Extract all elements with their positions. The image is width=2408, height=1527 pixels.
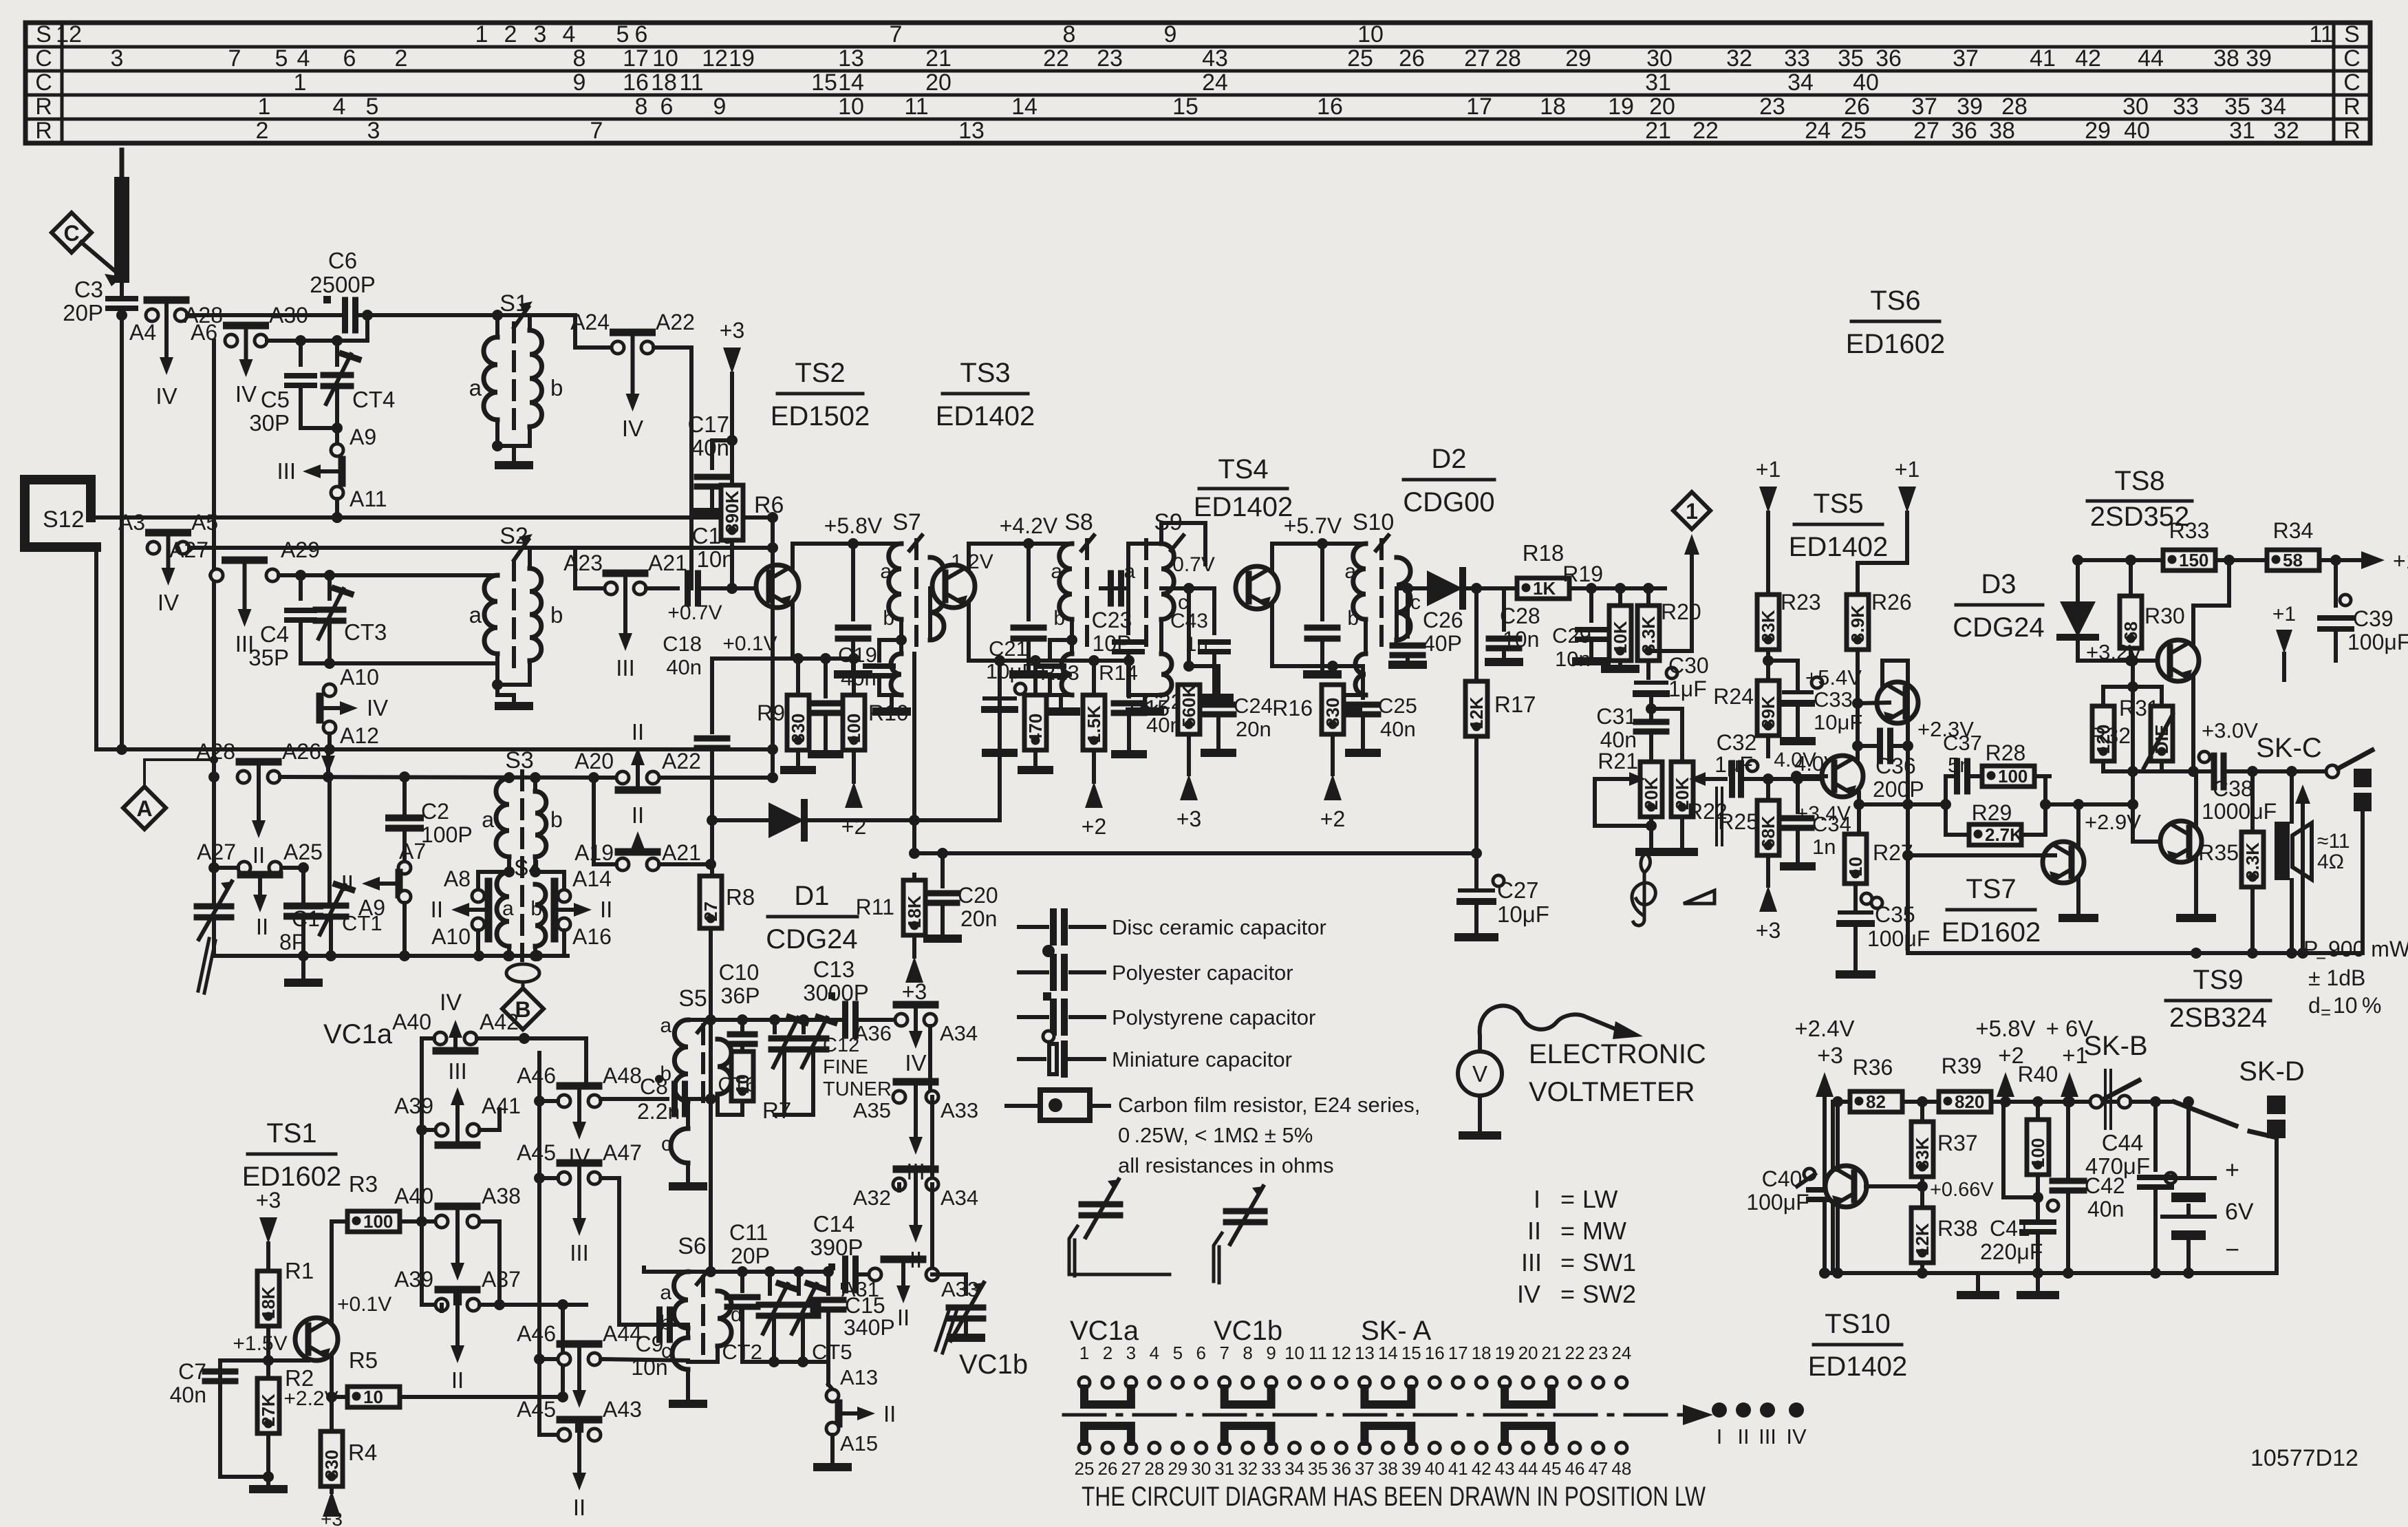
trimmer CT3 — [316, 575, 387, 645]
svg-text:c: c — [661, 1133, 671, 1155]
svg-text:ED1502: ED1502 — [771, 401, 870, 431]
svg-text:+3: +3 — [902, 979, 927, 1004]
svg-text:18: 18 — [1540, 94, 1566, 120]
resistor R5 10 — [283, 1347, 563, 1410]
svg-text:A46: A46 — [517, 1063, 556, 1088]
svg-text:15: 15 — [1172, 94, 1198, 120]
transformer S8 — [1036, 509, 1094, 712]
svg-text:10K: 10K — [1610, 621, 1631, 654]
wire TS7 base — [1908, 853, 2043, 857]
transformer S6 — [619, 1233, 742, 1404]
svg-text:10: 10 — [1284, 1343, 1304, 1363]
svg-text:35: 35 — [2224, 94, 2250, 120]
svg-text:TUNER: TUNER — [823, 1078, 892, 1100]
label TS3/ED1402 — [936, 358, 1035, 431]
transistor TS5 — [1774, 749, 1863, 797]
svg-text:b: b — [1347, 607, 1359, 630]
connector diamond B — [502, 988, 544, 1029]
svg-text:8: 8 — [635, 94, 648, 120]
connector diamond 1 with arrow — [1650, 492, 1710, 651]
svg-text:R: R — [35, 118, 52, 144]
svg-text:6: 6 — [343, 45, 356, 72]
svg-text:FINE: FINE — [823, 1056, 868, 1078]
svg-text:100μF: 100μF — [1746, 1190, 1809, 1215]
svg-text:9: 9 — [1164, 21, 1177, 47]
svg-text:ELECTRONIC: ELECTRONIC — [1529, 1039, 1706, 1069]
svg-text:S8: S8 — [1064, 509, 1093, 535]
diode D3 — [2060, 560, 2158, 666]
switch A46/A44 (II) lower — [517, 1321, 642, 1438]
resistor R37 33K — [1911, 1102, 1994, 1206]
wire x1123 vertical — [659, 517, 778, 783]
resistor R40 100 — [2018, 1062, 2058, 1203]
resistor R34 58 — [2254, 518, 2333, 570]
svg-text:14: 14 — [1378, 1343, 1398, 1363]
svg-text:a: a — [502, 897, 514, 920]
resistor R13 470 — [1022, 661, 1079, 770]
switch A39/A37 (II) lower — [394, 1267, 521, 1393]
svg-text:A4: A4 — [129, 320, 156, 345]
transistor TS1 — [295, 1266, 391, 1393]
svg-text:C: C — [2343, 70, 2361, 96]
svg-text:17: 17 — [1466, 94, 1492, 120]
svg-text:b: b — [883, 607, 894, 630]
svg-text:A40: A40 — [392, 1010, 431, 1034]
svg-text:C23: C23 — [1092, 608, 1132, 632]
capacitor C14 390P — [810, 1211, 870, 1290]
wire A26 right to S3 — [280, 771, 616, 783]
svg-text:27: 27 — [1913, 118, 1939, 144]
svg-text:VC1b: VC1b — [1214, 1316, 1282, 1346]
svg-text:43: 43 — [1202, 45, 1228, 72]
wire A5 right — [189, 542, 778, 553]
resistor R11 18K — [856, 875, 927, 1004]
svg-text:II: II — [451, 1367, 464, 1393]
svg-text:11: 11 — [904, 94, 928, 120]
svg-text:C6: C6 — [328, 248, 357, 273]
label TS9/2SB324 — [2166, 965, 2270, 1033]
wire TS2 emitter bus — [712, 632, 859, 664]
treble clef symbol — [1632, 853, 1655, 926]
svg-text:40: 40 — [2124, 118, 2150, 144]
legend disc ceramic capacitor — [1019, 912, 1326, 942]
svg-text:A36: A36 — [854, 1021, 892, 1045]
svg-text:0.7V: 0.7V — [1172, 553, 1215, 576]
capacitor C27 10uF — [1459, 875, 1549, 937]
svg-text:A31: A31 — [841, 1277, 879, 1301]
svg-text:II: II — [573, 1495, 585, 1520]
svg-text:2: 2 — [1103, 1343, 1112, 1363]
svg-text:SK-D: SK-D — [2239, 1056, 2305, 1087]
svg-text:3000P: 3000P — [803, 980, 868, 1005]
resistor R14 1.5K — [1082, 661, 1138, 839]
svg-text:10: 10 — [652, 45, 678, 72]
svg-text:=: = — [1560, 1217, 1575, 1245]
svg-text:1: 1 — [258, 94, 271, 120]
pot R21 20K — [1595, 749, 1663, 852]
svg-text:III: III — [570, 1240, 589, 1266]
resistor R16 330 — [1272, 685, 1345, 831]
wire TS3 emitter bus — [969, 654, 1135, 666]
svg-text:S10: S10 — [1353, 509, 1395, 535]
resistor R23 33K — [1756, 457, 1821, 756]
resistor R24 39K — [1713, 675, 1779, 741]
capacitor C16 10n — [646, 523, 735, 624]
switch A35/A33 (III) — [853, 1082, 978, 1184]
capacitor C19 40n — [810, 643, 877, 754]
svg-text:100: 100 — [1998, 766, 2028, 787]
wire arrow from bus y1089 to A26 bus — [321, 749, 335, 777]
label TS2/ED1502 — [771, 358, 870, 431]
pot R22 20K — [1651, 709, 1728, 852]
svg-text:C35: C35 — [1875, 902, 1915, 927]
svg-text:C: C — [63, 221, 79, 246]
svg-text:R37: R37 — [1937, 1131, 1978, 1155]
svg-text:S: S — [2344, 21, 2360, 47]
svg-text:10μF: 10μF — [986, 659, 1035, 683]
svg-text:40: 40 — [1425, 1458, 1445, 1479]
label D3/CDG24 — [1953, 569, 2044, 643]
wire TS5 emitter node — [1796, 793, 1946, 825]
capacitor C28 10n — [1489, 588, 1540, 662]
switch A8/A10 (II) at S4 a — [431, 866, 509, 956]
svg-text:II: II — [341, 871, 354, 896]
trimmer CT5 — [788, 1272, 852, 1364]
svg-text:R35: R35 — [2198, 840, 2239, 865]
supply arrow +3 (TS2) — [720, 318, 744, 594]
svg-text:A27: A27 — [197, 840, 236, 864]
svg-text:45: 45 — [1542, 1458, 1562, 1479]
svg-text:20P: 20P — [63, 300, 103, 325]
svg-text:R38: R38 — [1937, 1216, 1978, 1241]
svg-text:a: a — [880, 560, 892, 583]
svg-text:1μF: 1μF — [1714, 752, 1753, 777]
svg-text:40P: 40P — [1423, 631, 1462, 656]
transistor TS9 — [2133, 771, 2212, 918]
svg-text:II: II — [256, 914, 268, 939]
svg-text:C33: C33 — [1814, 687, 1853, 712]
svg-text:2: 2 — [395, 45, 408, 72]
svg-text:VC1b: VC1b — [959, 1349, 1028, 1380]
transformer S5 — [660, 985, 742, 1186]
svg-text:I: I — [1717, 1424, 1723, 1449]
svg-text:10: 10 — [363, 1387, 383, 1407]
wire main left vertical (antenna bus) — [116, 315, 127, 755]
svg-text:27: 27 — [1121, 1458, 1141, 1479]
svg-text:20n: 20n — [960, 906, 997, 931]
svg-text:CDG24: CDG24 — [766, 924, 857, 954]
svg-text:SK-B: SK-B — [2083, 1031, 2147, 1061]
svg-text:21: 21 — [925, 45, 952, 72]
svg-text:+1: +1 — [2272, 603, 2296, 626]
svg-text:R: R — [2343, 94, 2361, 120]
svg-text:4: 4 — [297, 45, 310, 72]
svg-text:S: S — [36, 21, 52, 47]
wire C4/CT3 bottom — [301, 621, 497, 669]
resistor R36 82 — [1838, 1055, 1914, 1112]
svg-text:38: 38 — [1378, 1458, 1398, 1479]
svg-text:A8: A8 — [444, 866, 471, 891]
svg-text:=: = — [2316, 946, 2326, 966]
svg-text:39: 39 — [1957, 94, 1983, 120]
svg-text:R6: R6 — [754, 492, 784, 518]
svg-text:19: 19 — [1608, 94, 1634, 120]
svg-text:1K: 1K — [1533, 578, 1556, 599]
svg-text:R: R — [2343, 118, 2361, 144]
svg-text:+1: +1 — [1756, 457, 1781, 482]
svg-text:12: 12 — [56, 21, 82, 47]
svg-text:R16: R16 — [1272, 696, 1313, 720]
svg-text:S12: S12 — [43, 506, 85, 533]
capacitor C26 40P — [1393, 588, 1463, 665]
resistor R33 150 — [2150, 518, 2229, 570]
svg-text:D1: D1 — [794, 881, 829, 911]
svg-text:II: II — [1527, 1217, 1541, 1245]
capacitor C13 3000P — [803, 957, 895, 1036]
switch A23/A21 — [563, 551, 687, 681]
svg-text:20n: 20n — [1236, 717, 1271, 741]
svg-text:32: 32 — [1238, 1458, 1258, 1479]
ground S1 — [499, 461, 529, 469]
svg-text:I: I — [1534, 1185, 1540, 1213]
svg-text:THE CIRCUIT DIAGRAM HAS BE: THE CIRCUIT DIAGRAM HAS BEEN DRAWN IN PO… — [1082, 1482, 1706, 1512]
svg-text:A21: A21 — [662, 840, 701, 865]
svg-text:A47: A47 — [603, 1140, 642, 1165]
svg-text:A43: A43 — [603, 1397, 642, 1422]
svg-text:=: = — [1560, 1280, 1575, 1308]
capacitor C25 40n — [1333, 666, 1417, 753]
svg-text:15: 15 — [811, 70, 837, 96]
svg-text:68: 68 — [2120, 621, 2141, 641]
svg-text:A40: A40 — [394, 1184, 433, 1208]
svg-text:33: 33 — [1784, 45, 1810, 72]
svg-text:b: b — [1053, 607, 1065, 630]
svg-text:25: 25 — [1075, 1458, 1095, 1479]
svg-text:A28: A28 — [196, 739, 235, 764]
svg-text:36: 36 — [1951, 118, 1977, 144]
capacitor C3 — [63, 277, 136, 325]
svg-text:A48: A48 — [603, 1063, 642, 1088]
svg-text:A5: A5 — [191, 510, 218, 535]
capacitor C37 5n — [1940, 731, 1986, 810]
svg-text:7: 7 — [228, 45, 241, 72]
svg-text:R7: R7 — [762, 1098, 791, 1123]
thermistor R32 DIE — [2090, 687, 2258, 771]
resistor R35 3.3K — [2198, 771, 2264, 953]
svg-text:CT6: CT6 — [718, 1074, 757, 1096]
svg-text:48: 48 — [1611, 1458, 1631, 1479]
svg-text:14: 14 — [1011, 94, 1038, 120]
svg-text:SK- A: SK- A — [1361, 1316, 1432, 1346]
svg-text:A16: A16 — [572, 924, 612, 949]
capacitor decouple TS4 — [1307, 628, 1337, 674]
svg-text:10n: 10n — [696, 546, 734, 572]
svg-text:10: 10 — [1845, 857, 1866, 877]
wire S5 row — [688, 1014, 846, 1025]
svg-text:100: 100 — [363, 1211, 393, 1232]
svg-text:R21: R21 — [1598, 749, 1638, 773]
wire A6 to C6 — [187, 313, 342, 317]
svg-text:C4: C4 — [260, 621, 289, 647]
svg-text:R4: R4 — [348, 1440, 377, 1465]
resistor R7 — [731, 1051, 791, 1123]
switch A19/A21 (II up) — [574, 831, 701, 871]
svg-text:A45: A45 — [517, 1397, 556, 1422]
switch A9/A11 (III) — [277, 425, 387, 511]
wire C16 to TS2 base — [701, 583, 755, 594]
wire C6 to S1 — [358, 313, 497, 317]
svg-text:a: a — [660, 1014, 671, 1037]
svg-text:30: 30 — [1646, 45, 1673, 72]
label D2/CDG00 — [1403, 444, 1494, 517]
svg-text:34: 34 — [1787, 70, 1814, 96]
svg-text:38: 38 — [1989, 118, 2015, 144]
svg-text:35: 35 — [1838, 45, 1864, 72]
svg-text:10: 10 — [838, 94, 864, 120]
svg-text:A29: A29 — [281, 537, 320, 562]
svg-text:R25: R25 — [1718, 809, 1759, 834]
svg-text:37: 37 — [1911, 94, 1937, 120]
svg-text:40: 40 — [1853, 70, 1879, 96]
switch A36/A34 (+3/IV) — [854, 1005, 978, 1076]
svg-text:C17: C17 — [687, 412, 729, 437]
svg-text:TS7: TS7 — [1966, 874, 2016, 904]
svg-text:A39: A39 — [394, 1267, 433, 1292]
svg-text:900 mW: 900 mW — [2328, 937, 2408, 961]
supply +6V/+1 arrow — [2046, 1016, 2094, 1107]
switch A45/A43 (II) bottom — [517, 1397, 642, 1520]
wire S1 b to A24 — [528, 315, 532, 330]
svg-text:44: 44 — [1518, 1458, 1538, 1479]
svg-text:46: 46 — [1565, 1458, 1584, 1479]
svg-text:27: 27 — [700, 901, 721, 921]
wire S7 to TS3 — [930, 586, 938, 590]
svg-text:ED1602: ED1602 — [1942, 917, 2041, 948]
svg-text:24: 24 — [1611, 1343, 1631, 1363]
wire R24 to node 4.0V — [1794, 751, 1838, 784]
svg-text:C: C — [35, 45, 52, 72]
svg-text:34: 34 — [1284, 1458, 1304, 1479]
svg-text:ED1402: ED1402 — [936, 401, 1035, 431]
capacitor C1 8P — [279, 868, 320, 983]
legend miniature capacitor — [1019, 1031, 1292, 1074]
svg-text:8: 8 — [573, 45, 586, 72]
svg-text:68K: 68K — [1758, 815, 1778, 848]
svg-text:100μF: 100μF — [2347, 630, 2408, 654]
svg-text:II: II — [600, 897, 612, 922]
svg-text:200P: 200P — [1873, 777, 1924, 802]
svg-text:4: 4 — [563, 21, 576, 47]
wire TS4 emitter — [1272, 654, 1338, 672]
svg-text:Carbon film resistor, E24: Carbon film resistor, E24 series, — [1118, 1093, 1420, 1117]
caption THE CIRCUIT DIAGRAM... — [1082, 1482, 1706, 1512]
wire S6 row — [688, 1009, 828, 1277]
wire TS4 collector +5.7V — [1272, 513, 1366, 619]
svg-text:5: 5 — [366, 94, 379, 120]
capacitor C44 470uF — [2085, 1102, 2176, 1279]
svg-text:27: 27 — [1464, 45, 1490, 72]
svg-text:+0.66V: +0.66V — [1930, 1179, 1994, 1201]
svg-text:SW2: SW2 — [1582, 1280, 1636, 1308]
svg-text:31: 31 — [1645, 70, 1671, 96]
svg-text:ED1402: ED1402 — [1194, 492, 1293, 522]
svg-text:II: II — [632, 802, 644, 828]
label II between switch rows — [632, 802, 644, 828]
svg-text:IV: IV — [440, 990, 462, 1016]
resistor R17 12K — [1465, 588, 1536, 889]
svg-text:18K: 18K — [904, 895, 925, 928]
supply +2.4V/+3 arrow — [1794, 1016, 1854, 1186]
svg-text:R10: R10 — [868, 701, 909, 725]
svg-text:37: 37 — [1355, 1458, 1375, 1479]
capacitor C39 100uF — [2320, 555, 2408, 661]
wire vertical x311 band-switch bus — [208, 341, 219, 782]
svg-text:38: 38 — [2213, 45, 2239, 72]
svg-text:A38: A38 — [482, 1184, 521, 1208]
svg-text:R19: R19 — [1562, 562, 1603, 586]
resistor R28 100 — [1967, 740, 2050, 835]
svg-text:41: 41 — [2030, 45, 2056, 72]
VC1a gang symbol — [1069, 1179, 1170, 1276]
trimmer CT1 — [316, 777, 383, 961]
switch A32/A34 (II) — [853, 1169, 978, 1274]
svg-text:29: 29 — [1565, 45, 1591, 72]
svg-text:A24: A24 — [570, 310, 610, 334]
svg-text:S6: S6 — [678, 1233, 707, 1259]
electronic voltmeter symbol — [1458, 1005, 1643, 1135]
svg-text:A32: A32 — [853, 1186, 891, 1210]
svg-text:R27: R27 — [1873, 840, 1913, 865]
svg-text:b: b — [550, 375, 563, 401]
svg-text:7: 7 — [590, 118, 603, 144]
arrow to jack — [2295, 784, 2310, 953]
svg-text:R5: R5 — [349, 1347, 378, 1373]
svg-text:IV: IV — [158, 590, 179, 615]
wire A37 node right — [480, 1299, 568, 1402]
svg-text:36: 36 — [1331, 1458, 1351, 1479]
svg-text:C10: C10 — [719, 960, 760, 985]
svg-text:100: 100 — [2028, 1138, 2048, 1168]
switch A10/A12 (IV) — [320, 665, 388, 755]
svg-text:A20: A20 — [574, 749, 614, 773]
svg-text:LW: LW — [1582, 1185, 1617, 1213]
capacitor C35 100uF — [1840, 893, 1930, 974]
svg-text:4: 4 — [1150, 1343, 1159, 1363]
svg-text:C31: C31 — [1596, 704, 1637, 729]
svg-text:28: 28 — [2001, 94, 2028, 120]
svg-text:33K: 33K — [1758, 610, 1778, 643]
svg-text:A11: A11 — [350, 487, 387, 511]
svg-text:IV: IV — [622, 416, 643, 441]
svg-text:16: 16 — [1317, 94, 1343, 120]
svg-text:5: 5 — [275, 45, 288, 72]
svg-text:+5.8V: +5.8V — [1975, 1016, 2035, 1041]
svg-text:a: a — [1051, 560, 1062, 583]
svg-text:C28: C28 — [1500, 604, 1540, 628]
svg-text:+3.4V: +3.4V — [1796, 802, 1851, 825]
SK-A contact strip — [1064, 1343, 1807, 1479]
jack SK-C — [2256, 733, 2372, 953]
svg-text:15: 15 — [1401, 1343, 1421, 1363]
svg-text:11: 11 — [2309, 21, 2333, 47]
svg-text:+5.8V: +5.8V — [824, 513, 883, 538]
svg-text:19: 19 — [729, 45, 755, 72]
trimmer CT4 — [323, 341, 395, 412]
svg-text:12: 12 — [1331, 1343, 1351, 1363]
svg-text:37: 37 — [1953, 45, 1979, 72]
connector diamond A — [123, 756, 218, 829]
svg-text:c: c — [1410, 591, 1421, 614]
